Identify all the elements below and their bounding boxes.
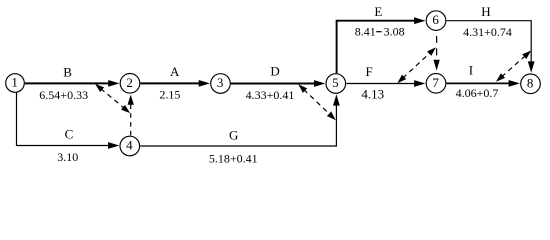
svg-text:5.18+0.41: 5.18+0.41 — [209, 152, 258, 166]
svg-text:5: 5 — [332, 75, 339, 90]
wire I: arrow node 7 to node 8 — [447, 80, 520, 87]
wire H: node 6 right, down, arrow into node 8 — [447, 21, 535, 73]
svg-text:8: 8 — [527, 75, 534, 90]
wire F: arrow node 5 to node 7 — [346, 80, 425, 87]
dummy arrow node 6 to node 7 (dashed) — [433, 30, 439, 70]
svg-text:4.33+0.41: 4.33+0.41 — [246, 88, 295, 102]
wire A: arrow node 2 to node 3 — [140, 80, 210, 87]
dummy arrow node 4 to node 2 (dashed) — [128, 95, 134, 136]
svg-text:A: A — [170, 64, 180, 79]
svg-text:E: E — [374, 4, 382, 19]
svg-text:6: 6 — [432, 12, 439, 27]
wire G: node 4 right, up, arrow into node 5 — [140, 94, 339, 146]
svg-text:6.54+0.33: 6.54+0.33 — [39, 88, 88, 102]
svg-text:3: 3 — [217, 75, 224, 90]
svg-text:C: C — [65, 126, 74, 141]
wire B: arrow node 1 to node 2 — [25, 80, 120, 87]
float arrow W1 (double-headed dashed, B line to dummy 4-2) — [95, 84, 130, 113]
node 8 — [521, 74, 541, 94]
svg-text:H: H — [481, 4, 490, 19]
svg-text:G: G — [229, 128, 238, 143]
svg-text:I: I — [469, 62, 473, 77]
svg-text:B: B — [63, 65, 72, 80]
node 3 — [211, 74, 231, 94]
node 5 — [326, 74, 346, 94]
svg-text:4.13: 4.13 — [361, 87, 384, 102]
svg-text:F: F — [365, 64, 372, 79]
svg-text:2: 2 — [126, 75, 133, 90]
float arrow W3 (double-headed dashed, F line to dummy 6-7) — [397, 47, 436, 83]
float arrow W4 (double-headed dashed, I line to H drop) — [496, 51, 531, 82]
node 4 — [120, 136, 140, 156]
svg-text:4.31+0.74: 4.31+0.74 — [463, 25, 512, 39]
node 6 — [426, 11, 446, 31]
svg-text:1: 1 — [11, 75, 18, 90]
svg-text:8.41: 8.41 — [355, 25, 376, 39]
svg-text:3.08: 3.08 — [384, 25, 405, 39]
wire C: node 1 down, right, arrow into node 4 — [17, 93, 120, 149]
wire E: node 5 up, right, arrow into node 6 — [337, 17, 426, 73]
svg-text:4.06+0.7: 4.06+0.7 — [456, 86, 499, 100]
node 1 — [6, 74, 25, 93]
svg-text:D: D — [270, 63, 279, 78]
svg-text:3.10: 3.10 — [57, 150, 78, 164]
value 8.41-3.08 — [355, 25, 405, 39]
node 2 — [120, 74, 140, 94]
svg-text:2.15: 2.15 — [159, 87, 180, 101]
node 7 — [426, 74, 446, 94]
svg-text:4: 4 — [126, 138, 133, 153]
float arrow W2 (double-headed dashed, D line to G riser) — [298, 84, 336, 120]
svg-text:7: 7 — [432, 75, 439, 90]
wire D: arrow node 3 to node 5 — [231, 80, 325, 87]
